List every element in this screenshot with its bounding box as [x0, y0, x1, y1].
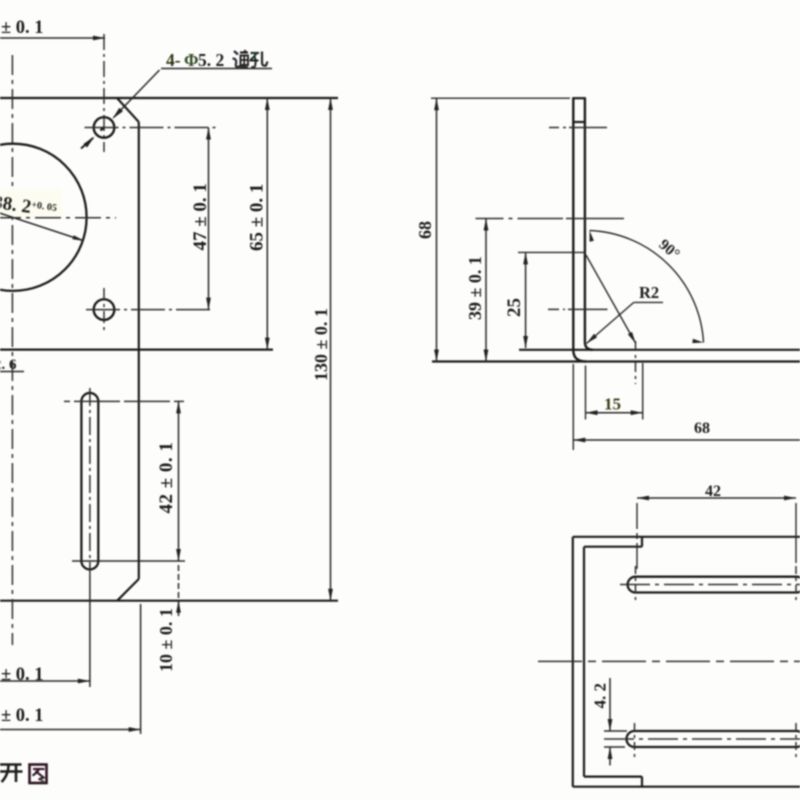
- left view: bend line: [0, 349, 273, 351]
- slot vertical centerline: [89, 388, 91, 576]
- svg-text:68: 68: [694, 420, 710, 437]
- bottom view: inner left edge (wall thickness): [583, 547, 585, 777]
- caption: unfold view (kai tu), CJK drawn as strokes: [0, 765, 23, 783]
- extension line from slot centerline down: [89, 576, 91, 687]
- slot: bottom arc: [81, 561, 98, 569]
- leader line to top hole: [114, 70, 160, 118]
- side view: wall outer face: [573, 98, 586, 361]
- left view: top-right chamfer: [117, 98, 139, 122]
- top hole vertical centerline / extension of 47-dim: [103, 34, 105, 152]
- dimension 15: [586, 412, 643, 414]
- lower slot left end vertical centerline: [634, 723, 636, 757]
- slot: right edge: [97, 401, 99, 561]
- svg-text:130 ± 0. 1: 130 ± 0. 1: [311, 308, 331, 381]
- svg-text:42: 42: [705, 483, 721, 500]
- big bore circle phi38.2: [0, 144, 87, 291]
- bottom view: inner bottom edge with step: [584, 775, 642, 777]
- diameter dimension line through circle: [0, 200, 83, 241]
- svg-text:10 ± 0. 1: 10 ± 0. 1: [156, 608, 176, 672]
- slot: left edge: [80, 401, 82, 561]
- bottom-left dimension 2 (cut) +-0.1 to right edge: [0, 729, 141, 731]
- left view: plate top edge + extension line: [0, 97, 338, 99]
- dimension 42 (slot arc centers): [637, 497, 796, 499]
- bottom view: horizontal centerline: [538, 660, 800, 662]
- diagonal reference line in bend: [586, 255, 636, 344]
- big circle horizontal centerline: [0, 217, 116, 219]
- dimension 10 +-0.1 (slot to bottom edge): [178, 565, 180, 616]
- svg-text:± 0. 1: ± 0. 1: [1, 706, 44, 726]
- side view: wall inner face: [585, 98, 593, 350]
- leader underline: [161, 68, 272, 70]
- left view: vertical centerline: [11, 55, 13, 645]
- side view: base top face + 25-dim extension: [519, 349, 800, 351]
- dimension 68 horizontal (cut off at right): [573, 439, 800, 441]
- 68 horizontal dim extension (wall outer face down): [572, 364, 574, 450]
- 15-dim extension lines: [585, 366, 587, 420]
- bottom view: inner top edge with step: [584, 546, 642, 548]
- top mount hole: [94, 117, 115, 138]
- svg-text:4-: 4-: [166, 50, 181, 70]
- svg-text:15: 15: [604, 395, 621, 414]
- 4.2-dim extension lines: [604, 730, 627, 732]
- lower slot in base: outline: [635, 730, 797, 732]
- slot centerline crossing base (side view): [635, 341, 637, 384]
- upper slot horizontal centerline: [620, 584, 800, 586]
- dimension 4.2 (slot width), arrows outside: [609, 678, 611, 731]
- svg-text:5. 2: 5. 2: [198, 50, 224, 70]
- top hole 45deg diagonal dash SW (arrow to hole): [84, 137, 95, 148]
- dimension 42 +-0.1 (slot length): [178, 401, 180, 561]
- bottom view: bottom edge: [573, 786, 800, 788]
- svg-text:68: 68: [415, 221, 435, 239]
- side view: top hole centerline: [549, 127, 566, 129]
- top-left dimension line (number cut off) +-0.1: [0, 37, 105, 39]
- dimension 25: [525, 252, 527, 348]
- dimension 47 +-0.1 (hole spacing): [208, 128, 210, 310]
- slot top center horizontal extension line (42 dim): [64, 400, 184, 402]
- dimension 68 (wall height): [436, 98, 438, 361]
- 25-dim top extension line: [518, 251, 585, 253]
- top hole horizontal centerline + extension: [85, 127, 218, 129]
- side view: mark across wall near top: [573, 121, 586, 123]
- slot bottom center horizontal extension line: [72, 560, 185, 562]
- left view: bottom-right chamfer: [117, 579, 139, 601]
- 90 degree angle arc: [590, 231, 704, 343]
- slot: top arc: [81, 393, 98, 401]
- bottom hole horizontal centerline + extension: [86, 309, 213, 311]
- svg-text:± 0. 1: ± 0. 1: [1, 18, 44, 38]
- svg-text:42 ± 0. 1: 42 ± 0. 1: [156, 442, 177, 514]
- extension line from plate right edge down: [140, 604, 142, 734]
- upper slot right end vertical centerline: [795, 566, 797, 601]
- left view: right edge: [138, 122, 140, 579]
- white halo behind phi38.2 label: [0, 189, 62, 217]
- side view: bore centerline: [476, 218, 564, 220]
- svg-text:4. 2: 4. 2: [591, 683, 610, 709]
- svg-text:± 0. 1: ± 0. 1: [1, 665, 44, 685]
- bottom hole vertical centerline: [103, 288, 105, 331]
- dimension 130 +-0.1 (overall flat length): [330, 98, 332, 601]
- svg-text:Φ: Φ: [184, 50, 199, 70]
- CJK char tong (through): [233, 50, 249, 68]
- svg-text:2. 6: 2. 6: [0, 357, 17, 373]
- top hole 45deg diagonal dot: [101, 128, 104, 131]
- upper slot left end vertical centerline: [635, 566, 637, 601]
- dimension 39 +-0.1: [485, 219, 487, 362]
- lower slot horizontal centerline: [604, 738, 800, 740]
- 42-dim extension lines: [636, 503, 638, 573]
- bottom view: outer left edge: [572, 537, 574, 787]
- side view: 68 top extension line: [431, 97, 570, 99]
- side view: base bottom face + 39/68-dim extension: [432, 360, 800, 362]
- bottom mount hole: [94, 299, 115, 320]
- left view: plate bottom edge + extension line: [0, 600, 338, 602]
- bottom-left dimension 1 (cut) +-0.1 to slot center: [0, 680, 90, 682]
- upper slot in base: outline: [636, 576, 797, 578]
- side view: wall top edge: [572, 97, 586, 99]
- svg-text:47 ± 0. 1: 47 ± 0. 1: [190, 183, 211, 250]
- svg-text:25: 25: [504, 298, 525, 317]
- CJK char kong (hole): [250, 52, 268, 68]
- side view: bottom hole centerline: [548, 308, 565, 310]
- svg-text:65 ± 0. 1: 65 ± 0. 1: [247, 184, 268, 251]
- svg-text:R2: R2: [639, 283, 659, 302]
- bottom view: top edge: [573, 536, 800, 538]
- lower slot right end vertical centerline: [795, 723, 797, 757]
- dimension 65 +-0.1 (top edge to bend): [266, 98, 268, 350]
- svg-text:39 ± 0. 1: 39 ± 0. 1: [465, 256, 485, 320]
